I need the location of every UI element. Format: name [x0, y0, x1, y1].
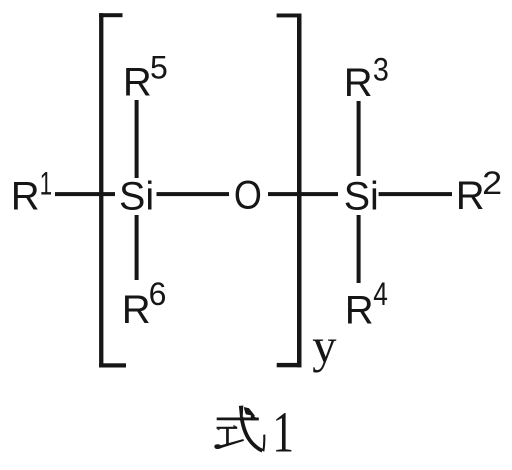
svg-text:R: R: [345, 288, 374, 332]
svg-text:Si: Si: [119, 174, 154, 218]
GONG vertical: [226, 427, 229, 444]
GONG bottom rising stroke: [214, 439, 244, 449]
top tick of slant-hook stroke: [239, 406, 243, 418]
svg-text:Si: Si: [344, 174, 379, 218]
slant hook stroke (curving down-right): [242, 417, 263, 451]
caption glyph SHI (Chinese character drawn as vector strokes): [214, 406, 265, 452]
atom label R1: [11, 166, 52, 219]
GONG top-left serif: [217, 429, 220, 431]
wire bond R3 to Si(right) vertical: [357, 101, 361, 176]
svg-text:R: R: [11, 175, 40, 219]
svg-text:1: 1: [40, 166, 53, 202]
wire bond Si(right) to R2: [379, 192, 452, 196]
svg-text:R: R: [123, 61, 152, 105]
GONG top-right serif: [233, 425, 237, 427]
wire bond R1 to Si(left): [55, 192, 115, 196]
wire bond Si(left) to R6 vertical: [135, 215, 139, 280]
svg-text:6: 6: [149, 276, 167, 312]
wire bond Si(left) to O: [157, 192, 230, 196]
bracket right (closing square bracket of repeat unit): [277, 14, 302, 368]
atom label R6: [122, 276, 167, 332]
bracket left (opening square bracket of repeat unit): [99, 13, 126, 367]
wire bond O to Si(right): [268, 192, 338, 196]
svg-text:R: R: [344, 61, 373, 105]
atom label R2: [456, 165, 502, 218]
svg-text:O: O: [234, 173, 262, 217]
svg-text:y: y: [312, 320, 337, 373]
atom label R4: [345, 276, 388, 332]
dot stroke (upper right): [244, 407, 255, 416]
upward hook tip: [262, 434, 265, 451]
svg-text:2: 2: [482, 165, 502, 201]
svg-text:4: 4: [373, 276, 388, 312]
atom label R5: [123, 50, 168, 105]
serif at right end of long horizontal: [251, 413, 259, 420]
svg-text:1: 1: [272, 399, 294, 464]
wire bond R5 to Si(left) vertical: [135, 100, 139, 178]
svg-text:R: R: [456, 174, 485, 218]
atom label R3: [344, 52, 389, 106]
wire bond Si(right) to R4 vertical: [357, 215, 361, 283]
long horizontal stroke: [217, 418, 259, 421]
svg-text:3: 3: [373, 52, 389, 88]
GONG top horizontal: [217, 427, 238, 429]
svg-text:R: R: [122, 288, 151, 332]
svg-text:5: 5: [150, 50, 168, 86]
